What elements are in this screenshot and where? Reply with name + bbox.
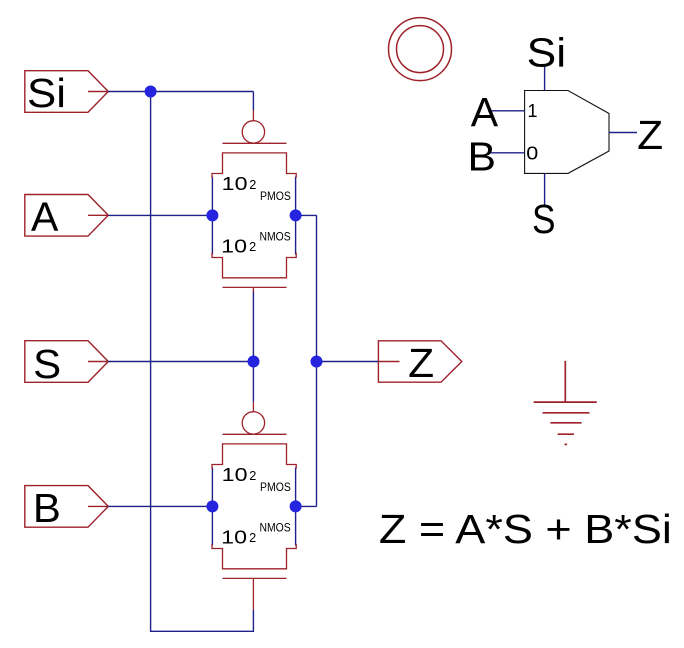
svg-text:1: 1 xyxy=(528,101,538,121)
wire mux B xyxy=(488,152,525,154)
junction dot TG1 right xyxy=(290,209,302,221)
svg-text:B: B xyxy=(468,133,497,179)
svg-text:PMOS: PMOS xyxy=(260,189,291,203)
junction dot TG1 left xyxy=(206,209,218,221)
wire bottom horizontal xyxy=(150,630,254,632)
svg-text:10: 10 xyxy=(222,464,248,485)
input pin A xyxy=(25,193,109,239)
wire left vertical bus xyxy=(150,92,152,632)
svg-text:10: 10 xyxy=(221,527,247,548)
ground symbol xyxy=(534,361,597,445)
svg-text:10: 10 xyxy=(221,236,247,257)
svg-text:Z: Z xyxy=(637,112,663,158)
wire mux S xyxy=(544,173,546,206)
wire bottom gate riser xyxy=(252,610,254,632)
svg-text:Z = A*S + B*Si: Z = A*S + B*Si xyxy=(379,506,672,552)
nmos M4 gate lead xyxy=(252,578,254,609)
wire B horizontal xyxy=(108,505,212,507)
svg-text:0: 0 xyxy=(526,144,538,164)
svg-text:Si: Si xyxy=(27,70,66,116)
pmos M3 gate line xyxy=(223,433,287,435)
pmos M1 bubble xyxy=(242,121,264,143)
junction dot TG2 right xyxy=(290,500,302,512)
pmos M1 channel xyxy=(212,153,296,178)
wire mux A xyxy=(488,110,525,112)
wire right vertical bus xyxy=(316,215,318,506)
junction dot S gates xyxy=(248,356,260,368)
nmos M4 channel xyxy=(212,544,296,569)
input pin Si xyxy=(25,70,109,116)
svg-text:2: 2 xyxy=(249,178,256,192)
svg-text:2: 2 xyxy=(249,531,256,545)
svg-text:Si: Si xyxy=(527,30,567,76)
wire S gate link vertical xyxy=(252,291,254,402)
svg-text:2: 2 xyxy=(249,469,256,483)
pmos M3 channel xyxy=(212,444,296,469)
pmos M3 bubble xyxy=(242,412,264,434)
wire Si gate drop xyxy=(252,92,254,111)
svg-text:B: B xyxy=(33,485,61,531)
svg-text:PMOS: PMOS xyxy=(260,480,291,494)
mux U1 body xyxy=(525,91,609,174)
wire Si horizontal xyxy=(108,91,253,93)
wire TG1 right terminal xyxy=(295,177,297,255)
svg-text:A: A xyxy=(31,193,59,239)
wire TG2 right terminal xyxy=(295,468,297,546)
junction dot Si tap xyxy=(145,86,157,98)
svg-text:S: S xyxy=(33,341,61,387)
pmos M1 gate lead xyxy=(252,111,254,122)
junction dot Z tap xyxy=(311,356,323,368)
pmos M1 gate line xyxy=(223,142,287,144)
svg-text:2: 2 xyxy=(249,240,256,254)
wire mux Si xyxy=(544,67,546,91)
wire TG1 output stub xyxy=(296,214,317,216)
wire Z horizontal xyxy=(317,361,379,363)
wire mux Z xyxy=(609,132,637,134)
wire TG1 left terminal xyxy=(211,177,213,255)
svg-text:Z: Z xyxy=(408,340,434,386)
svg-text:10: 10 xyxy=(222,173,248,194)
svg-text:NMOS: NMOS xyxy=(260,520,291,534)
pmos M3 gate lead xyxy=(252,402,254,413)
nmos M2 gate line xyxy=(223,286,287,288)
svg-text:S: S xyxy=(532,196,556,242)
nmos M2 channel xyxy=(212,253,296,278)
junction dot TG2 left xyxy=(206,500,218,512)
nmos M2 gate lead xyxy=(252,287,254,292)
facet ring symbol xyxy=(389,18,452,81)
output pin Z xyxy=(378,340,461,386)
svg-text:NMOS: NMOS xyxy=(260,229,291,243)
wire A horizontal xyxy=(108,214,212,216)
input pin S xyxy=(25,341,109,388)
wire TG2 left terminal xyxy=(211,468,213,546)
svg-text:A: A xyxy=(471,89,499,135)
input pin B xyxy=(25,485,109,531)
nmos M4 gate line xyxy=(223,577,287,579)
wire TG2 output stub xyxy=(296,505,317,507)
wire S horizontal xyxy=(108,361,253,363)
